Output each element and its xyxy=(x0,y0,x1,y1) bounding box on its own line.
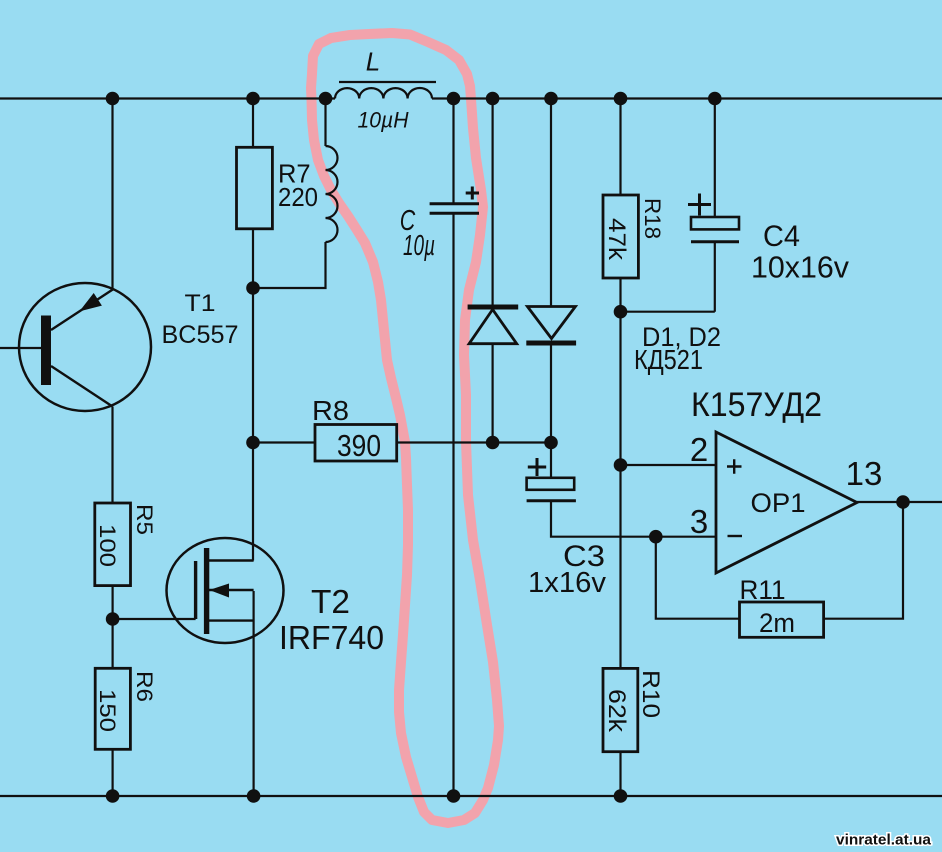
T2 channel bar xyxy=(204,548,209,634)
wire: op-amp output xyxy=(857,501,942,503)
svg-text:R18: R18 xyxy=(640,198,665,239)
hand-drawn pink highlight loop around L and C branch xyxy=(311,33,499,823)
node: rail / R7 top xyxy=(246,92,260,106)
svg-text:10µH: 10µH xyxy=(358,108,409,133)
wire: C3 bottom to pin3 row xyxy=(551,501,716,537)
wire: R18/C4 junction row xyxy=(621,311,715,313)
wire: top supply rail xyxy=(0,97,942,99)
op-amp U1 К157УД2 xyxy=(716,432,857,573)
wire: R7 bottom down through junctions to T2 drain xyxy=(252,229,254,561)
wire: R10 to ground rail xyxy=(619,752,621,796)
node: R18 bottom / C4 bottom xyxy=(614,305,628,319)
resistor R18 branch xyxy=(619,99,621,669)
svg-text:КД521: КД521 xyxy=(634,344,703,375)
wire: R8 row xyxy=(253,441,551,443)
T1 base bar xyxy=(41,316,51,386)
resistor R6 xyxy=(95,668,130,749)
svg-text:IRF740: IRF740 xyxy=(279,619,384,656)
svg-text:10x16v: 10x16v xyxy=(751,250,849,285)
node: pin2 wire / R10 top xyxy=(614,458,628,472)
node: rail / coil top xyxy=(319,92,333,106)
resistor R11 xyxy=(740,602,824,637)
resistor R10 xyxy=(603,668,638,751)
wire: T1 base to left edge xyxy=(0,347,41,349)
node: R8 left / T2 drain xyxy=(246,436,260,450)
wire: pin2 row xyxy=(621,464,716,466)
node: rail / D2 top xyxy=(544,92,558,106)
T1 collector diagonal xyxy=(51,366,113,407)
T2 drain link xyxy=(209,559,254,561)
svg-text:3: 3 xyxy=(690,503,708,540)
node: R5/R6 junction / T2 gate xyxy=(106,612,120,626)
node: ground / C bottom xyxy=(447,789,461,803)
svg-text:150: 150 xyxy=(95,689,120,732)
resistor R5 xyxy=(95,503,131,586)
wire: R6 to ground rail xyxy=(111,749,113,796)
wire: T1 emitter to rail xyxy=(111,99,113,290)
node: ground / R6 bottom xyxy=(106,789,120,803)
node: rail / D1 cathode xyxy=(486,92,500,106)
diode D2 branch wire xyxy=(550,99,552,478)
diode D1 xyxy=(468,305,519,344)
node: rail / T1 emitter xyxy=(106,92,120,106)
wire: R5 to R6 with gate tap xyxy=(113,586,196,669)
wire: R11 right to output node xyxy=(824,502,903,619)
wire: bottom ground rail xyxy=(0,795,942,797)
svg-text:390: 390 xyxy=(337,428,381,463)
svg-text:100: 100 xyxy=(95,524,120,567)
T2 gate bar xyxy=(194,561,197,619)
node: R7 bottom / coil bottom xyxy=(246,281,260,295)
svg-text:62k: 62k xyxy=(603,689,630,733)
node: ground / R10 bottom xyxy=(614,789,628,803)
resistor R8 xyxy=(315,425,397,462)
svg-text:C4: C4 xyxy=(763,220,800,253)
node: rail / R18 top xyxy=(614,92,628,106)
svg-text:vinratel.at.ua: vinratel.at.ua xyxy=(836,832,932,849)
plus of C xyxy=(466,187,479,200)
svg-text:220: 220 xyxy=(278,182,318,212)
T2 substrate arrow xyxy=(209,584,254,598)
minus input mark xyxy=(728,535,743,537)
svg-text:1x16v: 1x16v xyxy=(528,567,606,599)
svg-text:L: L xyxy=(366,47,380,77)
plus of C3 xyxy=(528,458,546,476)
wire: T1 collector down to R5 xyxy=(111,407,113,504)
svg-text:R6: R6 xyxy=(132,671,157,702)
node: D1 anode / R8 wire xyxy=(486,436,500,450)
diode D2 xyxy=(526,307,576,346)
wire: T2 source to ground xyxy=(253,591,255,796)
svg-text:R8: R8 xyxy=(312,395,349,426)
svg-text:2: 2 xyxy=(690,431,708,468)
T2 source link xyxy=(209,619,254,621)
svg-text:BC557: BC557 xyxy=(162,321,239,349)
plus of C4 xyxy=(688,194,711,216)
resistor R18 xyxy=(603,195,638,278)
transistor T1 circle xyxy=(19,283,151,411)
node: rail / C4 top xyxy=(708,92,722,106)
wire: rail to R7 xyxy=(252,99,254,148)
svg-text:2m: 2m xyxy=(759,608,795,638)
svg-text:К157УД2: К157УД2 xyxy=(691,386,822,424)
inductor L xyxy=(335,82,436,99)
node: output / feedback xyxy=(896,495,910,509)
plus input mark xyxy=(727,459,742,474)
parallel coil beside R7 xyxy=(253,99,338,289)
resistor R7 xyxy=(237,147,273,229)
svg-text:T1: T1 xyxy=(185,290,216,317)
svg-text:OP1: OP1 xyxy=(751,488,806,518)
capacitor C4 xyxy=(691,99,739,312)
feedback wire from pin3 node down to R11 xyxy=(656,537,740,619)
svg-text:R10: R10 xyxy=(637,670,664,718)
svg-text:T2: T2 xyxy=(311,583,350,620)
node: D2 bottom / R8 wire xyxy=(544,436,558,450)
svg-text:R11: R11 xyxy=(740,575,786,605)
transistor T2 circle xyxy=(167,538,284,643)
node: rail / C top xyxy=(447,92,461,106)
diode D1 branch wire xyxy=(492,99,494,443)
svg-text:13: 13 xyxy=(846,455,883,492)
capacitor C (10µ) xyxy=(430,99,479,797)
capacitor C3 xyxy=(527,478,576,501)
node: ground / T2 source xyxy=(247,789,261,803)
T1 emitter diagonal with arrow xyxy=(51,289,114,330)
svg-text:R5: R5 xyxy=(132,504,157,535)
svg-text:47k: 47k xyxy=(603,218,630,261)
svg-text:10µ: 10µ xyxy=(403,230,435,262)
node: pin3 wire / feedback xyxy=(649,530,663,544)
